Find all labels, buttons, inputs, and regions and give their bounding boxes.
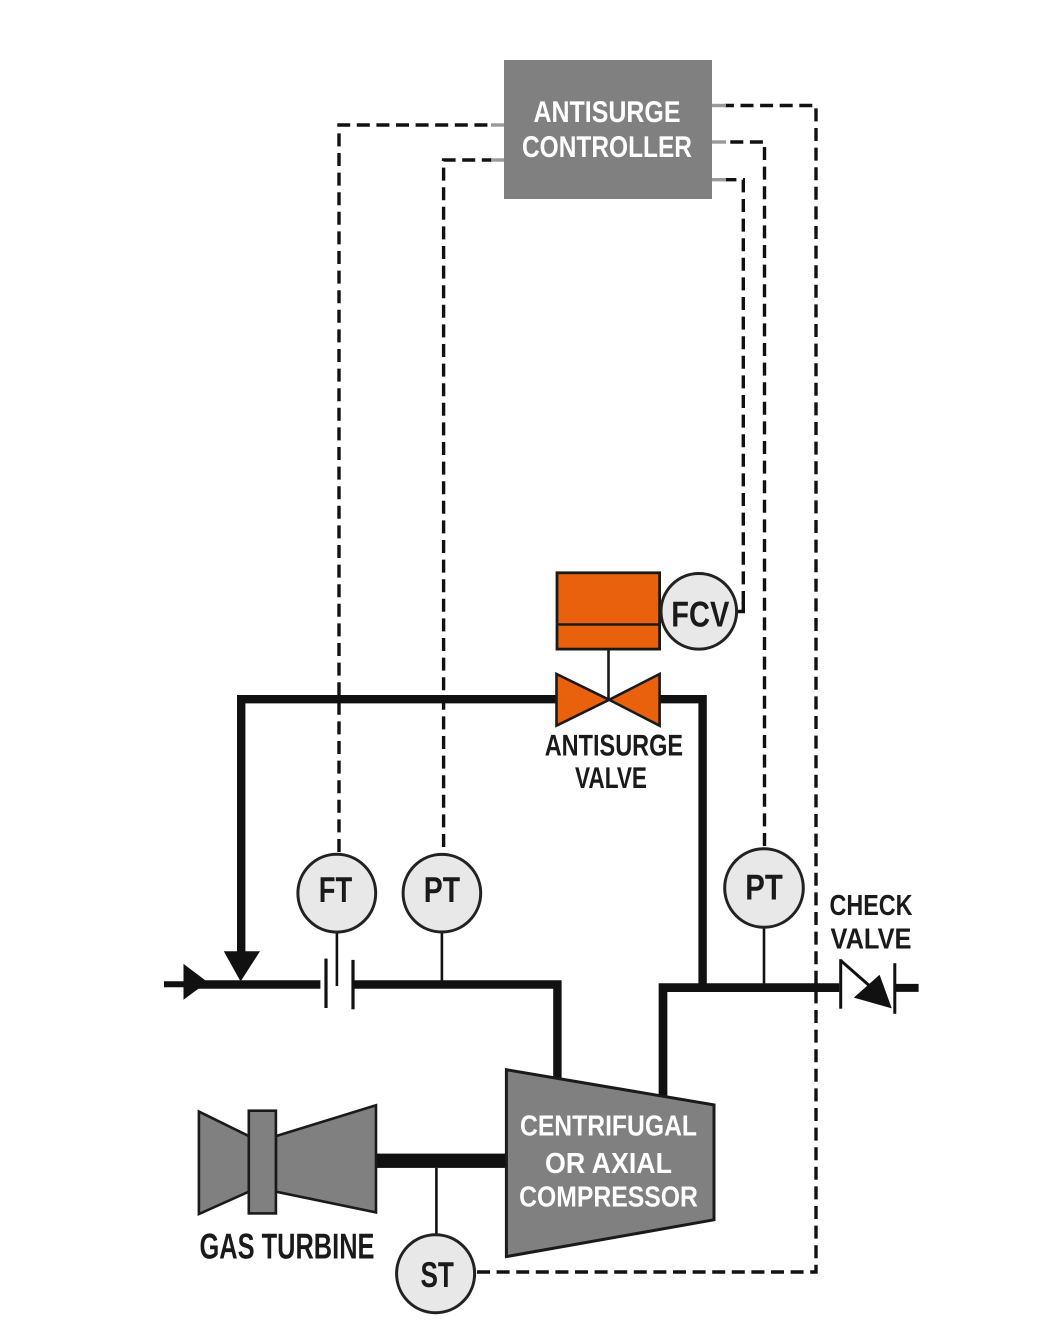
- instrument bubble FT: [298, 854, 376, 932]
- wire: PT suction tap line: [441, 930, 444, 984]
- svg-text:PT: PT: [424, 869, 460, 910]
- antisurge controller box: [504, 60, 712, 199]
- svg-text:PT: PT: [745, 866, 783, 907]
- shaft turbine to compressor: [372, 1154, 510, 1168]
- svg-text:ANTISURGE: ANTISURGE: [545, 729, 683, 762]
- controller output stub gray right ST: [712, 104, 726, 107]
- svg-text:CENTRIFUGAL: CENTRIFUGAL: [520, 1111, 697, 1143]
- svg-text:ANTISURGE: ANTISURGE: [534, 96, 681, 129]
- valve actuator (orange): [557, 573, 660, 649]
- svg-text:VALVE: VALVE: [575, 762, 647, 795]
- wire: discharge pipe from compressor outlet to check valve: [663, 988, 839, 1100]
- svg-text:GAS TURBINE: GAS TURBINE: [200, 1226, 375, 1267]
- wire: PT discharge tap line: [763, 925, 766, 983]
- svg-text:VALVE: VALVE: [831, 924, 912, 956]
- svg-text:OR AXIAL: OR AXIAL: [545, 1148, 672, 1180]
- svg-text:CHECK: CHECK: [830, 890, 913, 922]
- wire: suction inlet flow arrow: [184, 964, 208, 1000]
- controller input stub gray left PT: [491, 158, 504, 161]
- svg-text:FT: FT: [319, 869, 352, 910]
- svg-text:FCV: FCV: [671, 593, 729, 634]
- signal wire: dashed FT to controller: [339, 125, 492, 852]
- wire: FT tap line through orifice: [336, 930, 339, 986]
- antisurge valve body (bowtie): [557, 674, 660, 726]
- check valve symbol: [841, 959, 895, 1014]
- flow element FE orifice plate bars: [326, 959, 353, 1010]
- wire: pipe stub after check valve: [895, 984, 919, 992]
- gas turbine symbol: [199, 1105, 376, 1214]
- label: antisurge valve: [545, 729, 683, 795]
- wire: recycle line left run from valve to suction: [241, 699, 558, 951]
- instrument bubble PT (suction): [403, 854, 481, 932]
- wire: recycle line right run from valve down to discharge pipe: [658, 699, 703, 987]
- label: check valve: [830, 890, 913, 956]
- signal wire: dashed ST to controller: [477, 106, 816, 1273]
- controller output stub gray right PT: [712, 140, 726, 143]
- svg-text:ST: ST: [421, 1254, 454, 1295]
- signal wire: dashed suction PT to controller: [444, 160, 492, 847]
- wire: ST stem from shaft: [435, 1168, 438, 1236]
- wire: suction pipe horizontal with corner down to compressor inlet: [164, 984, 557, 1085]
- wire: recycle arrow into suction pipe: [224, 951, 260, 981]
- signal wire: FCV connection elbow: [738, 602, 744, 612]
- svg-text:COMPRESSOR: COMPRESSOR: [519, 1182, 698, 1214]
- valve stem: [607, 649, 610, 700]
- instrument bubble ST (speed transmitter): [397, 1235, 475, 1313]
- compressor symbol: [506, 1070, 714, 1257]
- instrument bubble FCV: [661, 574, 737, 650]
- signal wire: dashed discharge PT to controller: [725, 142, 765, 846]
- controller input stub gray left FT: [491, 123, 504, 126]
- signal wire: dashed controller to FCV: [725, 180, 743, 604]
- svg-text:CONTROLLER: CONTROLLER: [522, 131, 692, 164]
- instrument bubble PT (discharge): [725, 849, 804, 928]
- controller output stub gray right FCV: [712, 178, 726, 181]
